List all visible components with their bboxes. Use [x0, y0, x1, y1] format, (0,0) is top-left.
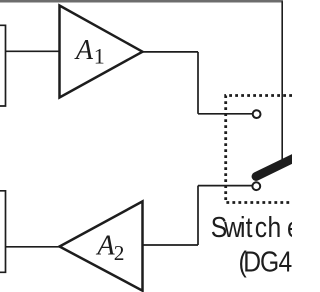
contact top throw: [253, 110, 261, 118]
op-amp A2: [60, 201, 143, 290]
svg-text:2: 2: [114, 241, 125, 265]
svg-text:h: h: [267, 211, 281, 243]
wire top horizontal (cut by image edge, appears grey): [0, 0, 283, 3]
wire to A2 input: [143, 244, 199, 246]
block left top (partial box): [0, 25, 6, 106]
contact bottom throw: [252, 182, 260, 190]
svg-text:419): 419): [279, 245, 292, 277]
svg-text:G: G: [260, 245, 279, 277]
wire A1 output: [143, 51, 199, 53]
svg-text:i: i: [240, 211, 245, 243]
caption line 2: (DG419): [238, 245, 320, 277]
block left bottom (partial box): [0, 191, 6, 272]
wire A1 input: [6, 50, 60, 52]
wire to bottom contact: [198, 185, 252, 187]
svg-text:c: c: [255, 211, 267, 243]
caption line 1 word: Switch: [211, 211, 281, 243]
svg-text:1: 1: [94, 44, 105, 69]
svg-text:A: A: [74, 35, 94, 66]
svg-text:element: element: [287, 211, 292, 243]
wire right vertical: [281, 1, 283, 162]
wire vertical down from bottom contact: [197, 186, 199, 245]
svg-text:t: t: [246, 211, 253, 243]
switch pole bar: [256, 158, 294, 177]
svg-text:D: D: [243, 245, 261, 277]
svg-text:A: A: [95, 231, 115, 262]
wire to top contact: [198, 113, 253, 115]
op-amp A1: [60, 6, 143, 98]
wire A2 output: [6, 246, 60, 248]
wire vertical down to top contact: [197, 52, 199, 114]
switch enclosure (dotted box): [226, 96, 292, 203]
